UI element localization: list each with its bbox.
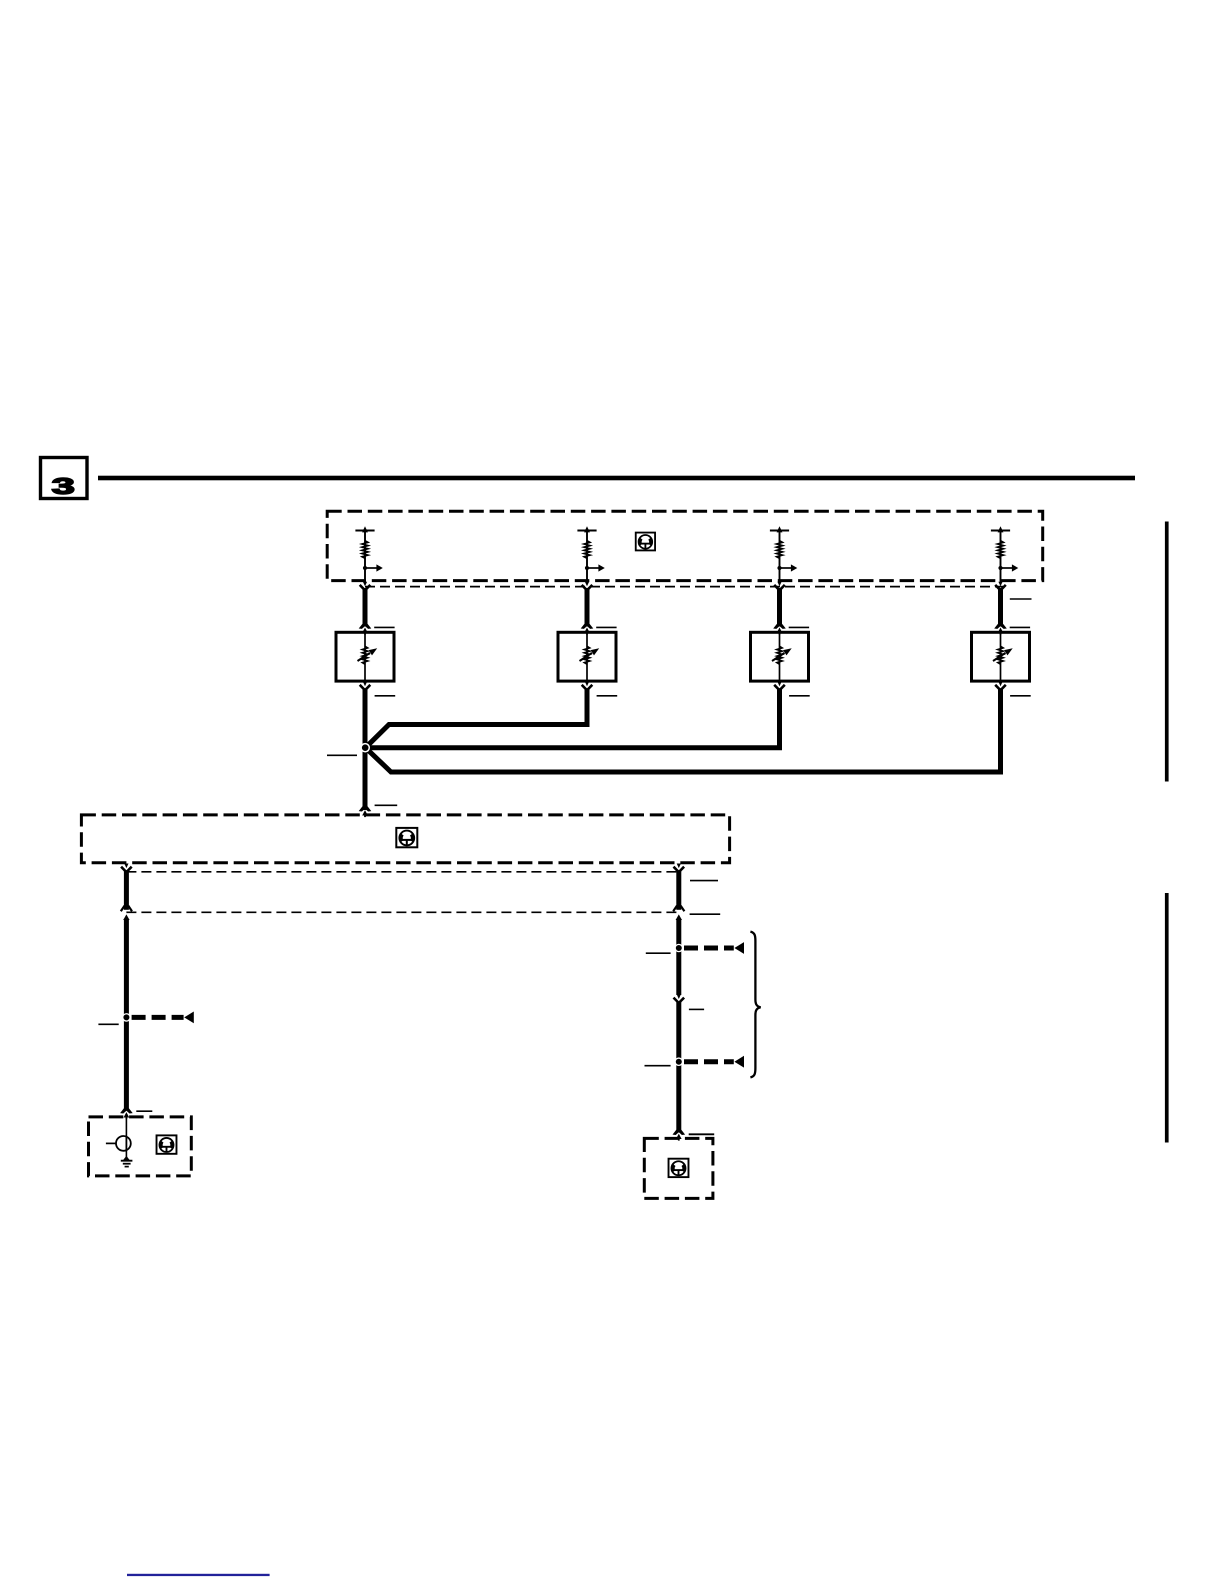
wire heater 4 to regulator <box>998 588 1003 627</box>
connector into regulator 1 <box>359 624 372 635</box>
ground distribution box (dashed) <box>89 1117 192 1176</box>
label wire color bottom 4 <box>1010 695 1031 697</box>
page index box 3 <box>41 458 88 500</box>
regulator (PTC resistor) R2 <box>558 632 616 681</box>
wire switch to connector (right) <box>676 870 681 910</box>
icon <box>636 533 655 551</box>
icon <box>157 1135 177 1153</box>
direction connector mid right <box>674 994 685 1002</box>
regulator (PTC resistor) R3 <box>751 632 809 681</box>
label node A <box>327 754 357 756</box>
connector out of regulator 1 <box>360 682 371 690</box>
label right junction lower <box>645 1065 671 1067</box>
icon <box>669 1159 689 1177</box>
control switch box (dashed) <box>81 815 729 863</box>
stub wire to other circuit (left) <box>132 1012 194 1024</box>
junction node A <box>360 743 370 753</box>
component box: washer jet heaters (dashed) <box>327 511 1042 580</box>
connector into module <box>673 1130 686 1141</box>
wire heater 3 to regulator <box>777 588 782 627</box>
regulator (PTC resistor) R4 <box>972 632 1030 681</box>
inline connector band upper edge <box>126 871 678 873</box>
junction right lower <box>675 1057 684 1066</box>
wire junction to module (right) <box>676 1002 681 1133</box>
label into module <box>689 1133 715 1135</box>
connector out of switch at x=678.8 <box>674 864 685 872</box>
label connector right lower <box>690 913 721 915</box>
section bar upper <box>1165 522 1169 782</box>
wire connector to junction (right) <box>676 919 681 995</box>
heater element E3 <box>770 526 797 583</box>
heater element E2 <box>577 526 604 583</box>
connector at heater box exit 3 <box>774 582 785 590</box>
connector into regulator 2 <box>581 624 594 635</box>
connector at heater box exit 4 <box>995 582 1006 590</box>
ground point symbol <box>106 1119 132 1167</box>
label wire color bottom 3 <box>789 695 810 697</box>
section bar lower <box>1165 893 1169 1143</box>
label wire into switch <box>375 804 398 806</box>
junction right upper <box>675 944 684 953</box>
connector out of switch at x=126.4 <box>121 864 132 872</box>
module box (dashed) <box>644 1138 713 1198</box>
connector at heater box exit 2 <box>582 582 593 590</box>
wire regulator 1 through node to switch <box>363 688 368 810</box>
label ground wire <box>136 1110 152 1112</box>
connector pins at x=126.4 <box>121 906 132 920</box>
icon <box>396 828 417 847</box>
label connector right upper <box>690 880 718 882</box>
connector into ground box <box>120 1108 133 1119</box>
connector pins at x=678.8 <box>673 906 684 920</box>
junction left <box>122 1013 131 1022</box>
svg-text:3: 3 <box>52 473 75 499</box>
label wire color branch 4 upper <box>1010 598 1032 600</box>
stub wire to other circuit (right lower) <box>684 1056 744 1068</box>
wire switch to connector (left) <box>124 870 129 910</box>
connector into regulator 4 <box>994 624 1007 635</box>
connector into switch <box>359 806 372 817</box>
heater element E4 <box>991 526 1018 583</box>
label wire color bottom 1 <box>375 695 396 697</box>
label right junction upper <box>646 952 671 954</box>
heater element E1 <box>355 526 382 583</box>
wire regulator 4 to node <box>366 688 1001 772</box>
wire regulator 3 to node <box>367 688 780 747</box>
connector into regulator 3 <box>773 624 786 635</box>
connector at heater box exit 1 <box>360 582 371 590</box>
label wire color top 2 <box>596 626 616 628</box>
stub wire to other circuit (right upper) <box>684 942 744 954</box>
footer link line <box>127 1574 270 1576</box>
inline connector band lower edge <box>126 911 678 913</box>
wire regulator 2 to node <box>366 688 587 747</box>
regulator (PTC resistor) R1 <box>336 632 394 681</box>
connector out of regulator 4 <box>995 682 1006 690</box>
label wire color bottom 2 <box>597 695 618 697</box>
label wire color top 3 <box>789 626 809 628</box>
wire connector to ground point <box>124 919 129 1110</box>
connector out of regulator 2 <box>582 682 593 690</box>
label wire color top 1 <box>374 626 394 628</box>
wire heater 1 to regulator <box>363 588 368 627</box>
connector plane under heater box <box>365 586 1003 588</box>
label mid right <box>689 1008 704 1010</box>
label wire color top 4 <box>1010 626 1030 628</box>
wire heater 2 to regulator <box>585 588 590 627</box>
label left junction <box>98 1023 118 1025</box>
brace group marker <box>750 932 760 1078</box>
header rule <box>98 476 1135 481</box>
connector out of regulator 3 <box>774 682 785 690</box>
